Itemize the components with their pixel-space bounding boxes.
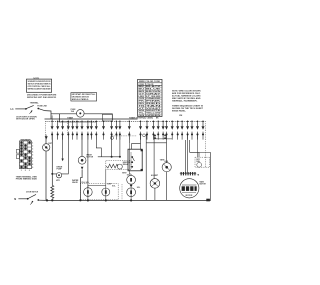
svg-text:8: 8 — [32, 164, 33, 166]
junction heater to rail — [51, 199, 53, 201]
timer contact T6 — [76, 121, 79, 140]
water valve dashed enclosure — [80, 184, 118, 200]
timer contact T11 — [102, 121, 105, 140]
svg-text:4: 4 — [32, 151, 33, 154]
svg-text:1: 1 — [21, 170, 22, 172]
wire drop T20 to thermostat circle — [153, 134, 155, 178]
svg-text:9: 9 — [32, 167, 33, 169]
dashed vertical near c3 — [121, 184, 123, 200]
door switch S1 (shown open) — [25, 105, 45, 114]
svg-text:FILL SOL: FILL SOL — [82, 182, 89, 184]
door switch S2 (shown open) — [27, 194, 39, 204]
timer contact T14 — [118, 121, 121, 140]
wire c3 riser — [129, 143, 131, 175]
svg-text:3: 3 — [29, 170, 30, 172]
timer contact T21 — [165, 121, 168, 140]
note box NOTE2 (warning note) — [71, 93, 97, 102]
timer contact T5 — [71, 121, 74, 140]
timer contact T3 — [61, 121, 64, 140]
timer contact T7 — [81, 121, 84, 140]
svg-text:DOOR SWITCH: DOOR SWITCH — [26, 191, 39, 193]
vertical link to lower rail — [58, 114, 60, 122]
svg-text:FUSE LINK: FUSE LINK — [37, 106, 47, 108]
svg-text:MOTOR: MOTOR — [200, 184, 207, 186]
svg-text:FROM WIRING SIDE: FROM WIRING SIDE — [16, 179, 38, 181]
svg-text:SERVICING UNIT. DIAG 99002741: SERVICING UNIT. DIAG 99002741 — [27, 96, 56, 99]
riser c2 to relay box — [105, 170, 107, 186]
heater HE1 (zigzag) — [51, 185, 54, 198]
svg-text:2: 2 — [25, 170, 26, 172]
contact arrow above dispenser — [45, 136, 48, 139]
timer contact T8 — [86, 121, 89, 140]
label door switch caption — [16, 116, 37, 120]
svg-text:7: 7 — [32, 161, 33, 163]
svg-text:SERIAL NUMBER.: SERIAL NUMBER. — [172, 99, 198, 102]
wire drop T10 short — [90, 134, 92, 138]
caption under NOTE1 — [27, 95, 57, 99]
thermostat TH1 (hatched circle) — [150, 179, 160, 189]
svg-text:WITH DOOR OPEN: WITH DOOR OPEN — [16, 119, 35, 121]
timer contact T26 — [191, 121, 194, 140]
svg-text:3: 3 — [32, 149, 33, 151]
svg-text:AND ALL PANELS.: AND ALL PANELS. — [72, 98, 89, 101]
drain solenoid V3 — [127, 188, 136, 202]
timer contact T13 — [115, 121, 118, 140]
vent solenoid upper V4 — [127, 175, 136, 184]
wire L1 lead — [15, 108, 25, 110]
svg-text:6: 6 — [32, 158, 33, 160]
timer contact T22 — [171, 121, 174, 140]
timer contact T20 — [162, 121, 165, 140]
wire link top of solenoids — [88, 184, 106, 186]
svg-text:RELAY: RELAY — [123, 163, 130, 166]
svg-text:1: 1 — [32, 142, 33, 144]
wire risers from relay link — [111, 134, 113, 156]
dispenser solenoid V2 — [102, 188, 110, 201]
timer contact T25 — [186, 121, 189, 140]
wire drop to drain pump line — [52, 134, 68, 174]
fuse F1 (circle on line) — [77, 110, 85, 118]
internal dashed segment — [112, 135, 137, 137]
svg-text:INSIDE PANEL.: INSIDE PANEL. — [172, 110, 186, 113]
junction square bottom right — [206, 199, 210, 202]
relay coil C (circle) — [117, 164, 122, 169]
svg-text:SOL: SOL — [137, 187, 140, 189]
selector internals — [131, 152, 135, 169]
timer boundary dashed vertical right — [204, 121, 206, 167]
wire drop to rinse aid circle — [45, 135, 47, 201]
text block A (right of table) — [172, 91, 201, 103]
cam follower contact a — [154, 135, 156, 137]
svg-text:2: 2 — [32, 145, 33, 147]
wire drop to selector box — [140, 134, 142, 149]
svg-text:TIMER (INTERNAL CAMS): TIMER (INTERNAL CAMS) — [129, 116, 153, 119]
main motor M1 (large circle) — [180, 179, 199, 198]
svg-text:TIMER: TIMER — [67, 117, 73, 119]
timer contact T2 — [56, 121, 59, 140]
svg-text:SWITCH OPEN AND TIMER IN: SWITCH OPEN AND TIMER IN — [28, 83, 51, 86]
relay coil box K1 — [102, 114, 112, 121]
wire vent fan to rail — [166, 172, 168, 201]
selector switch box SW (solid rect) — [128, 149, 142, 171]
wire drops to main motor area — [185, 140, 187, 173]
contact under wash motor — [81, 167, 84, 170]
wire rail upper — [51, 113, 77, 115]
timer contact T18 — [152, 121, 155, 140]
motor terminal strip — [180, 172, 200, 176]
svg-text:N: N — [14, 197, 16, 201]
aux box (dashed) with fan — [195, 157, 210, 167]
timer contact T9 — [90, 121, 93, 140]
wire thermostat to rail — [154, 188, 156, 200]
timer contact T28 — [202, 121, 205, 140]
svg-text:NOTE: NOTE — [33, 78, 39, 80]
wire stub above bus — [51, 115, 53, 121]
wire drop to heater relay feed — [96, 134, 101, 156]
terminal block connector grid — [20, 141, 32, 169]
wire drop with end arrow — [62, 134, 64, 158]
timer bus (dashed) — [46, 120, 206, 122]
wire switch to rail — [39, 199, 47, 201]
svg-text:PUMP: PUMP — [57, 169, 63, 171]
wire door switch to timer rail — [45, 111, 52, 119]
wire drop to turbidity circle — [166, 134, 168, 162]
svg-text:WIRING AGAINST DIAGRAM: WIRING AGAINST DIAGRAM — [28, 88, 51, 91]
timer contact T4 — [67, 121, 70, 140]
terminal circle below contact — [110, 136, 113, 139]
rinse dispenser solenoid D1 — [43, 144, 50, 151]
wire drop to detergent valve c3 — [128, 134, 130, 143]
contact between solenoids — [130, 185, 133, 188]
timer contact T24 — [181, 121, 184, 140]
svg-text:MOTOR: MOTOR — [86, 156, 93, 158]
svg-text:SCHEMATIC SHOWN WITH DOOR: SCHEMATIC SHOWN WITH DOOR — [28, 80, 51, 83]
timer contact T1 — [51, 121, 54, 140]
fill solenoid V1 — [84, 188, 93, 202]
timer contact T16 — [139, 121, 142, 140]
wire drop wash motor — [81, 134, 83, 156]
timer contact T15 — [128, 121, 131, 140]
timer contact T27 — [196, 121, 199, 140]
wire heater drop — [51, 134, 53, 185]
svg-text:THERMAL: THERMAL — [30, 102, 40, 105]
timer contact T23 — [176, 121, 179, 140]
wire wash motor to rail — [80, 170, 82, 201]
wire to aux dashed box — [190, 152, 199, 157]
timer contact T19 — [157, 121, 160, 140]
connector side tabs — [16, 150, 19, 154]
svg-text:L1: L1 — [11, 107, 15, 111]
jumper line lower right — [146, 142, 166, 144]
wire drop T29 to aux box — [197, 134, 199, 157]
vent fan motor M4 — [162, 163, 171, 172]
note box NOTE1 (schematic note, top-left) — [27, 78, 52, 92]
wire N lead — [18, 198, 27, 200]
svg-text:VALVE: VALVE — [72, 181, 79, 184]
timer contact T12 — [110, 121, 113, 140]
wire short drop T3 — [57, 134, 59, 139]
svg-text:HI-LIMIT: HI-LIMIT — [151, 175, 159, 177]
timer boundary dashed corner left — [45, 121, 47, 134]
neutral wire right side — [210, 152, 212, 200]
relay resistor R1 (zigzag) — [106, 164, 118, 168]
dashed boundary segment left — [67, 121, 69, 133]
selector corner terminals — [141, 149, 143, 151]
cam follower contact b — [164, 135, 166, 137]
text block B (right of table, lower) — [172, 105, 204, 113]
wire drop T19 to rail — [145, 134, 147, 200]
wire from fuse to relay box — [84, 114, 112, 120]
svg-text:SOL: SOL — [112, 186, 115, 188]
svg-text:OFF POSITION. CHECK ALL: OFF POSITION. CHECK ALL — [28, 85, 52, 88]
timer contact T17 — [146, 121, 149, 140]
svg-text:MOTOR: MOTOR — [186, 195, 193, 197]
wire color code table — [138, 79, 164, 117]
bottom neutral rail — [47, 199, 211, 201]
timer contact T10 — [95, 121, 98, 140]
heater relay box K2 (dashed) — [106, 161, 131, 170]
wash motor M2 — [78, 156, 86, 164]
jumper line upper right — [154, 138, 172, 140]
drain pump M3 — [56, 173, 61, 178]
wire relay link horizontal — [98, 156, 120, 158]
wire drop to fill valve — [87, 134, 89, 188]
svg-text:5: 5 — [32, 155, 33, 157]
timer rail (solid) — [45, 118, 138, 120]
lower solid rail segment — [59, 121, 96, 123]
small circle terminal — [143, 134, 146, 137]
